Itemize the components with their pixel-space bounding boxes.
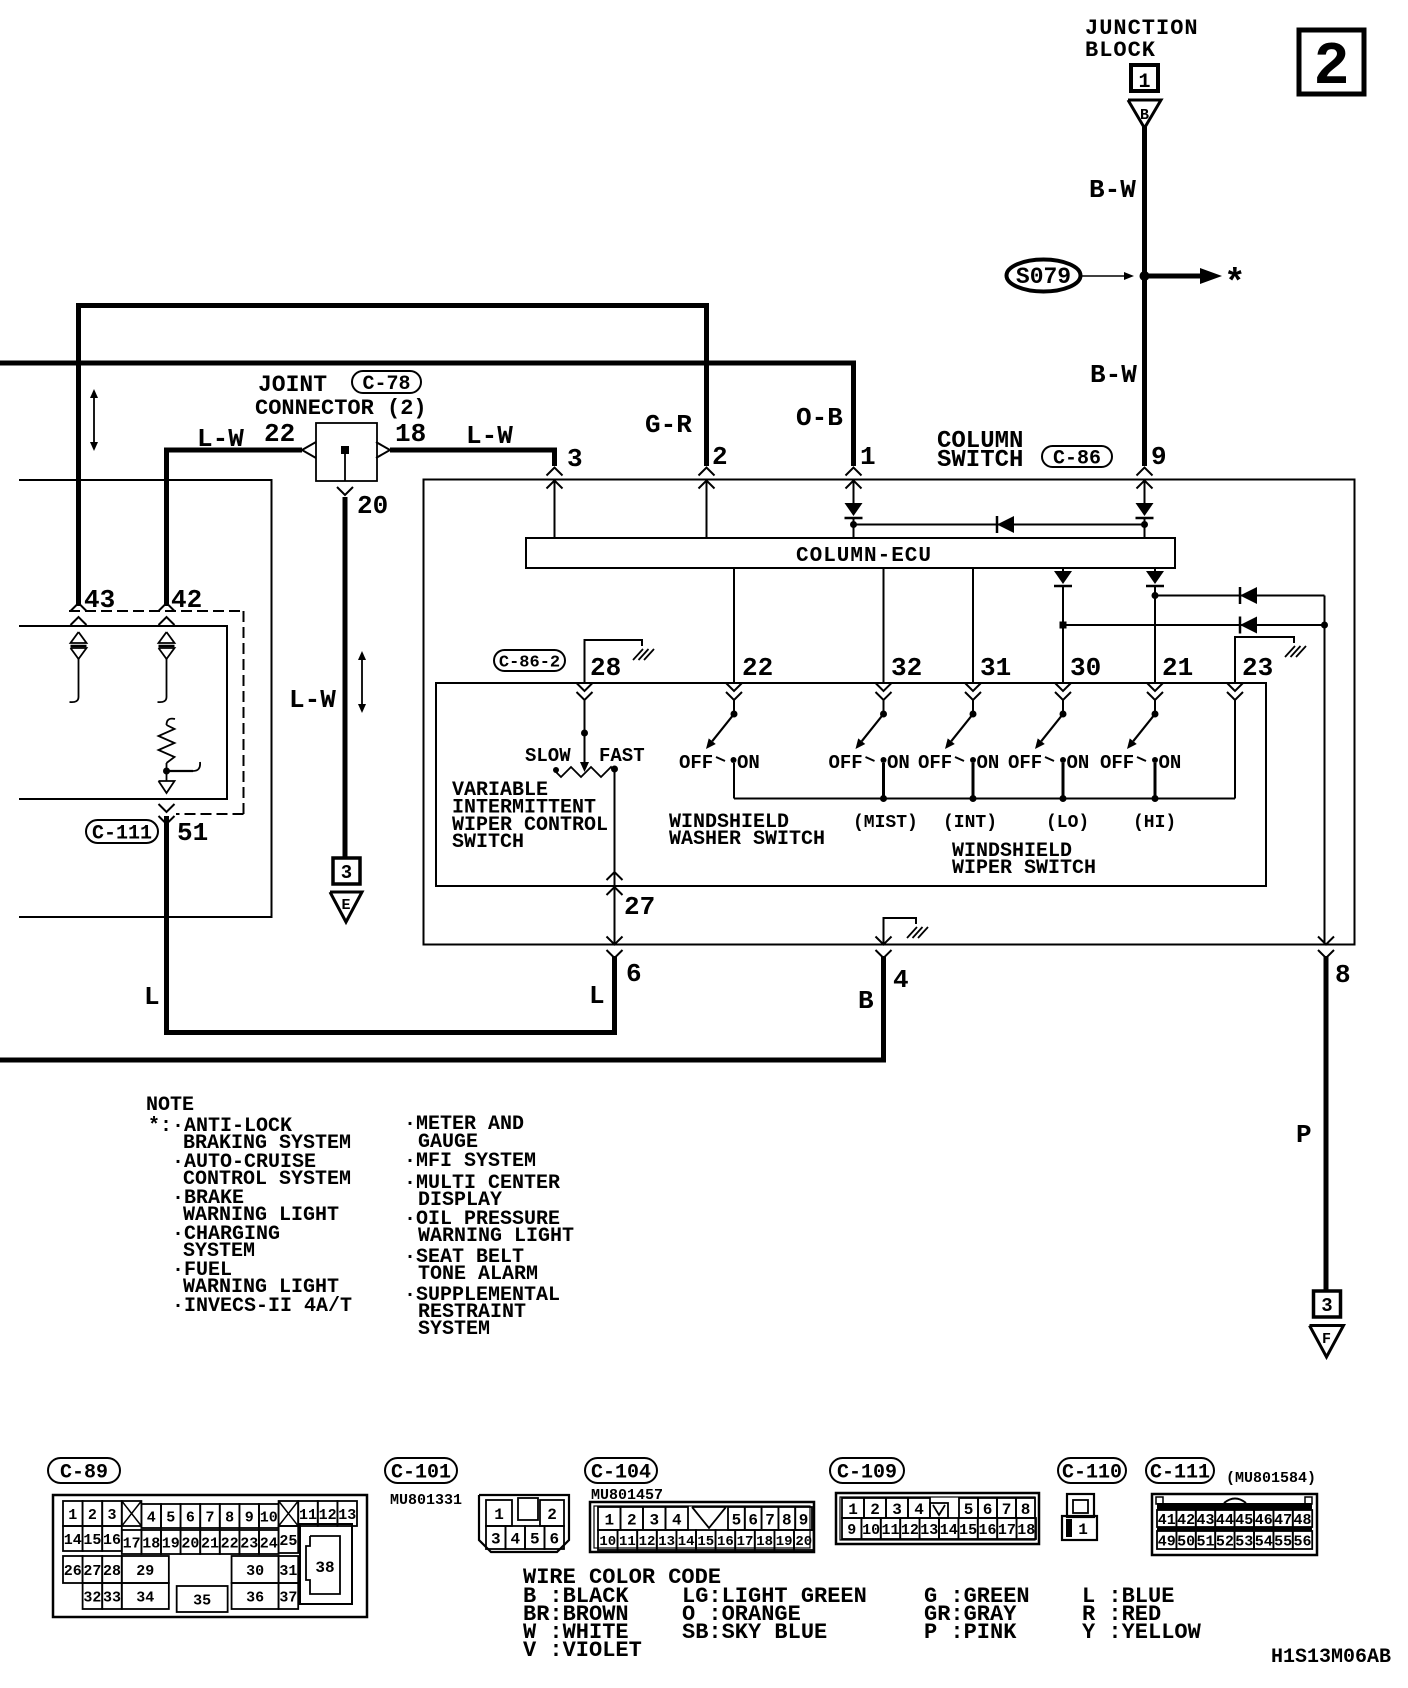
svg-text:31: 31 <box>279 1563 297 1580</box>
svg-text:P :PINK: P :PINK <box>924 1620 1017 1645</box>
svg-text:F: F <box>1322 1331 1331 1348</box>
svg-text:C-86-2: C-86-2 <box>499 654 560 673</box>
svg-text:30: 30 <box>1070 653 1101 683</box>
svg-text:4: 4 <box>672 1511 682 1529</box>
svg-text:2: 2 <box>870 1501 880 1519</box>
svg-text:(MU801584): (MU801584) <box>1226 1470 1316 1487</box>
svg-text:49: 49 <box>1158 1533 1176 1550</box>
svg-text:51: 51 <box>177 818 208 848</box>
svg-text:8: 8 <box>225 1509 234 1526</box>
svg-text:36: 36 <box>246 1589 264 1606</box>
svg-text:48: 48 <box>1293 1512 1311 1529</box>
svg-text:V :VIOLET: V :VIOLET <box>523 1638 642 1663</box>
svg-text:32: 32 <box>83 1589 101 1606</box>
svg-text:50: 50 <box>1177 1533 1195 1550</box>
svg-text:5: 5 <box>166 1509 175 1526</box>
svg-text:OFF: OFF <box>829 752 863 774</box>
svg-text:11: 11 <box>619 1534 636 1550</box>
svg-text:15: 15 <box>83 1532 101 1549</box>
svg-text:1: 1 <box>604 1511 614 1529</box>
svg-text:54: 54 <box>1255 1533 1273 1550</box>
svg-text:B: B <box>1140 107 1149 124</box>
svg-text:WARNING LIGHT: WARNING LIGHT <box>418 1225 574 1248</box>
svg-text:28: 28 <box>103 1563 121 1580</box>
svg-text:*: * <box>1224 263 1246 304</box>
svg-text:(HI): (HI) <box>1133 813 1176 833</box>
svg-text:SYSTEM: SYSTEM <box>418 1318 490 1341</box>
svg-text:OFF: OFF <box>918 752 952 774</box>
svg-text:38: 38 <box>315 1559 334 1577</box>
svg-text:20: 20 <box>795 1534 812 1550</box>
svg-text:L: L <box>144 982 160 1012</box>
svg-text:L-W: L-W <box>466 421 513 451</box>
svg-text:14: 14 <box>678 1534 695 1550</box>
svg-text:B-W: B-W <box>1089 175 1136 205</box>
svg-text:17: 17 <box>998 1522 1016 1539</box>
svg-text:18: 18 <box>756 1534 773 1550</box>
svg-text:C-89: C-89 <box>60 1462 108 1485</box>
svg-text:ON: ON <box>737 752 760 774</box>
svg-text:(MIST): (MIST) <box>853 813 918 833</box>
svg-text:4: 4 <box>914 1501 924 1519</box>
svg-text:B: B <box>858 986 874 1016</box>
svg-text:16: 16 <box>978 1522 996 1539</box>
svg-text:OFF: OFF <box>1100 752 1134 774</box>
svg-text:22: 22 <box>742 653 773 683</box>
svg-text:18: 18 <box>395 419 426 449</box>
svg-text:34: 34 <box>136 1589 154 1606</box>
svg-text:28: 28 <box>590 653 621 683</box>
svg-text:6: 6 <box>626 959 642 989</box>
svg-text:3: 3 <box>107 1507 116 1524</box>
svg-text:11: 11 <box>299 1507 317 1524</box>
svg-text:32: 32 <box>891 653 922 683</box>
svg-text:17: 17 <box>123 1535 141 1552</box>
svg-text:37: 37 <box>279 1589 297 1606</box>
svg-text:SLOW: SLOW <box>525 745 571 767</box>
svg-text:H1S13M06AB: H1S13M06AB <box>1271 1646 1391 1669</box>
svg-text:25: 25 <box>279 1533 297 1550</box>
svg-text:3: 3 <box>491 1530 501 1548</box>
svg-text:8: 8 <box>782 1511 792 1529</box>
svg-text:3: 3 <box>892 1501 902 1519</box>
svg-text:47: 47 <box>1274 1512 1292 1529</box>
svg-text:15: 15 <box>697 1534 714 1550</box>
svg-text:3: 3 <box>341 862 352 884</box>
svg-text:C-111: C-111 <box>92 823 152 846</box>
svg-text:17: 17 <box>737 1534 754 1550</box>
svg-text:16: 16 <box>717 1534 734 1550</box>
svg-text:G-R: G-R <box>645 410 692 440</box>
svg-text:OFF: OFF <box>1008 752 1042 774</box>
svg-text:2: 2 <box>88 1507 97 1524</box>
svg-text:29: 29 <box>136 1563 154 1580</box>
svg-text:6: 6 <box>186 1509 195 1526</box>
svg-text:FAST: FAST <box>599 745 645 767</box>
svg-text:10: 10 <box>260 1509 278 1526</box>
svg-text:ON: ON <box>887 752 910 774</box>
svg-text:·INVECS-II 4A/T: ·INVECS-II 4A/T <box>172 1295 352 1318</box>
svg-text:55: 55 <box>1274 1533 1292 1550</box>
svg-text:NOTE: NOTE <box>146 1094 194 1117</box>
svg-text:5: 5 <box>964 1501 974 1519</box>
svg-text:*:: *: <box>148 1115 172 1138</box>
svg-text:12: 12 <box>319 1507 337 1524</box>
svg-text:1: 1 <box>848 1501 858 1519</box>
svg-text:16: 16 <box>103 1532 121 1549</box>
svg-text:Y :YELLOW: Y :YELLOW <box>1082 1620 1202 1645</box>
svg-text:S079: S079 <box>1016 264 1071 290</box>
svg-text:14: 14 <box>940 1522 958 1539</box>
svg-text:1: 1 <box>68 1507 77 1524</box>
svg-text:21: 21 <box>201 1535 219 1552</box>
svg-text:20: 20 <box>181 1535 199 1552</box>
svg-text:10: 10 <box>862 1522 880 1539</box>
svg-text:1: 1 <box>494 1506 504 1524</box>
svg-text:2: 2 <box>1313 34 1349 102</box>
svg-text:WIPER SWITCH: WIPER SWITCH <box>952 857 1096 880</box>
svg-text:TONE ALARM: TONE ALARM <box>418 1263 538 1286</box>
svg-text:(LO): (LO) <box>1046 813 1089 833</box>
svg-text:C-78: C-78 <box>362 373 410 396</box>
svg-text:9: 9 <box>1151 442 1167 472</box>
svg-text:13: 13 <box>658 1534 675 1550</box>
svg-text:18: 18 <box>1017 1522 1035 1539</box>
svg-text:22: 22 <box>221 1535 239 1552</box>
svg-text:SWITCH: SWITCH <box>452 831 524 854</box>
svg-text:L-W: L-W <box>197 424 244 454</box>
svg-text:ON: ON <box>1159 752 1182 774</box>
svg-text:10: 10 <box>599 1534 616 1550</box>
svg-text:44: 44 <box>1216 1512 1234 1529</box>
svg-text:·MFI SYSTEM: ·MFI SYSTEM <box>404 1150 536 1173</box>
svg-text:19: 19 <box>776 1534 793 1550</box>
svg-text:19: 19 <box>162 1535 180 1552</box>
svg-text:6: 6 <box>549 1530 559 1548</box>
svg-text:7: 7 <box>1002 1501 1012 1519</box>
svg-text:P: P <box>1296 1120 1312 1150</box>
svg-text:2: 2 <box>547 1506 557 1524</box>
svg-text:OFF: OFF <box>679 752 713 774</box>
svg-text:1: 1 <box>1138 71 1150 94</box>
svg-text:2: 2 <box>627 1511 637 1529</box>
svg-text:(INT): (INT) <box>943 813 997 833</box>
svg-text:18: 18 <box>142 1535 160 1552</box>
svg-text:31: 31 <box>980 653 1011 683</box>
svg-text:SB:SKY BLUE: SB:SKY BLUE <box>682 1620 827 1645</box>
svg-text:3: 3 <box>1321 1295 1332 1317</box>
svg-text:45: 45 <box>1235 1512 1253 1529</box>
svg-text:23: 23 <box>1242 653 1273 683</box>
svg-text:43: 43 <box>1196 1512 1214 1529</box>
svg-text:12: 12 <box>639 1534 656 1550</box>
svg-text:7: 7 <box>205 1509 214 1526</box>
svg-text:35: 35 <box>193 1592 211 1609</box>
svg-text:53: 53 <box>1235 1533 1253 1550</box>
svg-text:8: 8 <box>1335 960 1351 990</box>
svg-text:51: 51 <box>1196 1533 1214 1550</box>
svg-text:12: 12 <box>901 1522 919 1539</box>
svg-text:MU801331: MU801331 <box>390 1492 462 1509</box>
svg-text:E: E <box>341 897 350 914</box>
svg-text:L: L <box>589 981 605 1011</box>
svg-text:JOINT: JOINT <box>258 372 327 398</box>
svg-text:C-111: C-111 <box>1150 1462 1210 1485</box>
svg-text:WASHER SWITCH: WASHER SWITCH <box>669 828 825 851</box>
svg-text:13: 13 <box>920 1522 938 1539</box>
svg-text:9: 9 <box>847 1522 856 1539</box>
svg-text:14: 14 <box>64 1532 82 1549</box>
svg-text:COLUMN-ECU: COLUMN-ECU <box>796 545 932 568</box>
svg-text:4: 4 <box>510 1530 520 1548</box>
svg-text:5: 5 <box>530 1530 540 1548</box>
svg-text:20: 20 <box>357 491 388 521</box>
svg-text:33: 33 <box>103 1589 121 1606</box>
svg-text:7: 7 <box>765 1511 775 1529</box>
svg-text:C-86: C-86 <box>1053 448 1101 471</box>
svg-text:30: 30 <box>246 1563 264 1580</box>
svg-text:B-W: B-W <box>1090 360 1137 390</box>
svg-text:CONNECTOR (2): CONNECTOR (2) <box>255 396 427 421</box>
svg-text:C-104: C-104 <box>591 1462 651 1485</box>
svg-text:ON: ON <box>977 752 1000 774</box>
svg-text:ON: ON <box>1067 752 1090 774</box>
svg-text:4: 4 <box>893 965 909 995</box>
svg-text:41: 41 <box>1158 1512 1176 1529</box>
svg-text:42: 42 <box>171 585 202 615</box>
svg-text:42: 42 <box>1177 1512 1195 1529</box>
svg-text:23: 23 <box>240 1535 258 1552</box>
svg-text:9: 9 <box>245 1509 254 1526</box>
svg-text:22: 22 <box>264 419 295 449</box>
svg-text:27: 27 <box>624 892 655 922</box>
svg-text:46: 46 <box>1255 1512 1273 1529</box>
svg-text:15: 15 <box>959 1522 977 1539</box>
svg-text:SWITCH: SWITCH <box>937 447 1023 474</box>
svg-text:1: 1 <box>1078 1521 1088 1539</box>
svg-text:6: 6 <box>748 1511 758 1529</box>
svg-text:2: 2 <box>712 442 728 472</box>
svg-text:27: 27 <box>83 1563 101 1580</box>
svg-text:6: 6 <box>983 1501 993 1519</box>
svg-text:11: 11 <box>881 1522 899 1539</box>
svg-text:26: 26 <box>64 1563 82 1580</box>
svg-text:9: 9 <box>799 1511 809 1529</box>
svg-text:L-W: L-W <box>289 685 336 715</box>
svg-text:3: 3 <box>567 444 583 474</box>
svg-text:43: 43 <box>84 585 115 615</box>
svg-text:C-101: C-101 <box>391 1462 451 1485</box>
svg-text:4: 4 <box>147 1509 156 1526</box>
svg-text:8: 8 <box>1021 1501 1031 1519</box>
svg-text:1: 1 <box>860 442 876 472</box>
svg-text:52: 52 <box>1216 1533 1234 1550</box>
svg-text:56: 56 <box>1293 1533 1311 1550</box>
svg-text:13: 13 <box>338 1507 356 1524</box>
svg-text:C-109: C-109 <box>837 1462 897 1485</box>
svg-text:3: 3 <box>649 1511 659 1529</box>
svg-text:BLOCK: BLOCK <box>1085 38 1156 63</box>
svg-text:O-B: O-B <box>796 403 843 433</box>
svg-text:21: 21 <box>1162 653 1193 683</box>
svg-text:5: 5 <box>732 1511 742 1529</box>
svg-text:C-110: C-110 <box>1062 1462 1122 1485</box>
svg-text:24: 24 <box>260 1535 278 1552</box>
